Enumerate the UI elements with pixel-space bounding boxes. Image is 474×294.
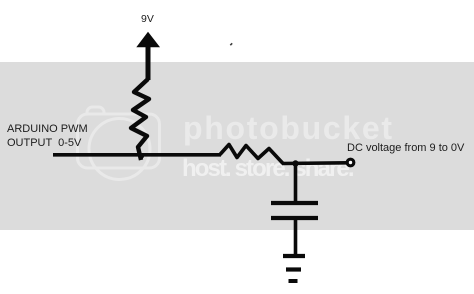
photobucket watermark gray band	[0, 62, 474, 230]
junction node A	[139, 153, 144, 158]
wire from PWM output to resistor R2	[53, 153, 221, 157]
resistor R1 vertical from 9V to node A	[131, 79, 149, 160]
label DC voltage from 9 to 0V	[347, 142, 464, 155]
ground symbol bar 2	[286, 267, 301, 271]
capacitor C1 bottom plate	[271, 216, 318, 220]
junction node B (to capacitor)	[292, 160, 298, 166]
ground symbol bar 1	[283, 254, 305, 258]
label 9V	[141, 13, 154, 26]
watermark text photobucket	[183, 110, 394, 147]
wire node B down to capacitor C1	[294, 163, 298, 202]
watermark text host. store. share.	[182, 155, 353, 183]
resistor R2 horizontal	[220, 145, 283, 164]
stray pencil mark	[230, 43, 232, 45]
wire capacitor C1 to ground	[294, 220, 298, 255]
capacitor C1 top plate	[271, 201, 318, 205]
wire from R2 to output terminal	[282, 161, 347, 165]
ground symbol bar 3	[289, 279, 298, 283]
output terminal circle	[347, 159, 354, 166]
label ARDUINO PWM OUTPUT 0-5V	[7, 122, 88, 150]
9V supply arrow	[138, 33, 159, 80]
